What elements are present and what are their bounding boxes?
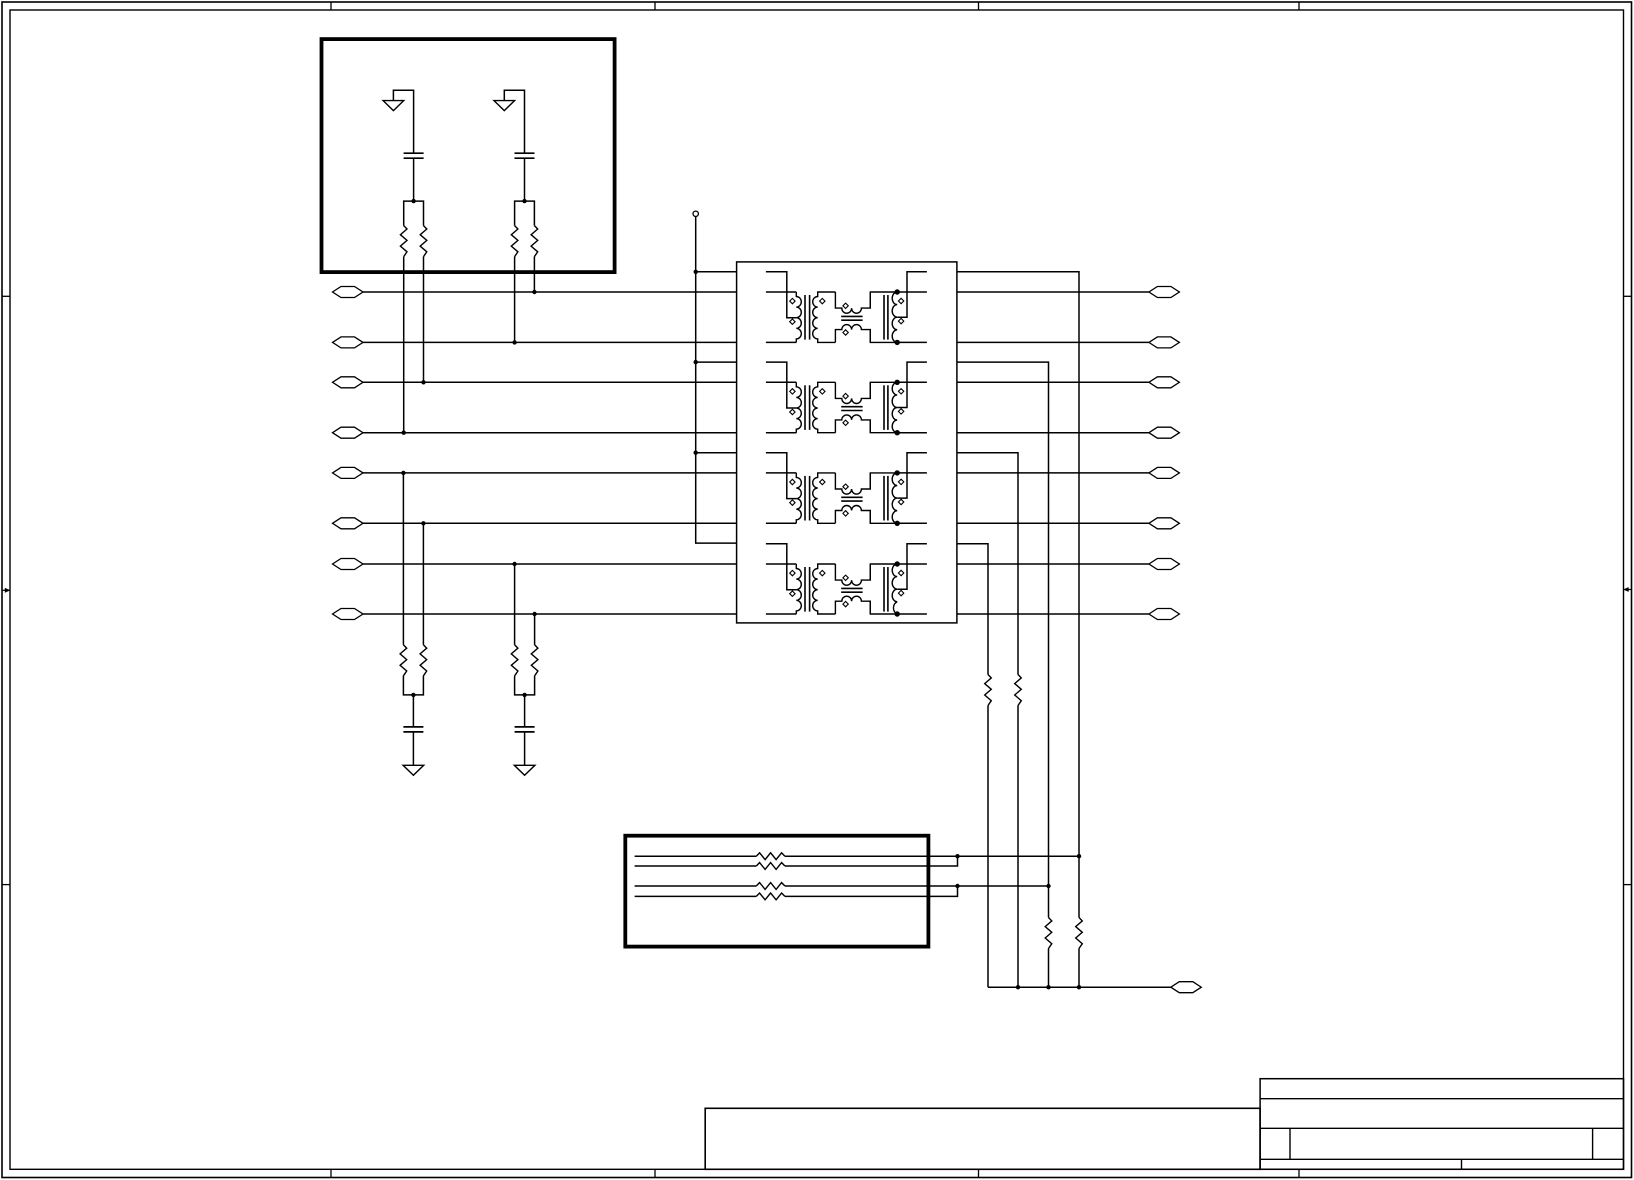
- port P5: [333, 467, 364, 478]
- wire net A1: [635, 855, 757, 857]
- port P17: [1171, 982, 1202, 993]
- polarity dot T2 line bottom: [898, 409, 903, 414]
- port P4: [333, 427, 364, 438]
- wire net MDI7: [363, 563, 737, 565]
- wire resistor R3 to bus: [514, 257, 516, 343]
- wire pin stub out+ channel 3: [897, 472, 927, 474]
- polarity dot T4 line top: [898, 570, 903, 575]
- junction: [512, 562, 516, 566]
- transformer T4 secondary winding: [813, 564, 836, 614]
- wire net A2: [635, 865, 757, 867]
- resistor R2: [420, 226, 427, 257]
- junction pin 1A: [895, 289, 900, 294]
- wire capacitor C1 to junction: [413, 158, 415, 201]
- choke L4 upper coil: [835, 564, 870, 585]
- wire resistor R2 to bus: [423, 257, 425, 383]
- wire capacitor C3 to ground: [412, 732, 414, 765]
- wire net MDI2: [363, 341, 737, 343]
- wire net MDI4: [363, 432, 737, 434]
- polarity dot L3 upper: [843, 484, 848, 489]
- polarity dot T1 primary bottom: [790, 319, 795, 324]
- port P3: [333, 377, 364, 388]
- junction pin 3A: [895, 470, 900, 475]
- wire split to resistors R3 R4: [515, 201, 535, 226]
- resistor R1: [400, 226, 407, 257]
- wire capacitor C4 to ground: [524, 732, 526, 765]
- resistor R14: [756, 863, 785, 870]
- wire pin stub out+ channel 2: [897, 381, 927, 383]
- wire bus to resistor R5: [402, 473, 404, 645]
- wire net B2 merge: [785, 886, 958, 896]
- junction: [522, 199, 526, 203]
- wire net TD6: [957, 522, 1149, 524]
- junction: [1016, 985, 1020, 989]
- transformer T4 line-side outline: [870, 564, 897, 580]
- resistor R16: [756, 893, 785, 900]
- transformer T4 primary winding: [796, 564, 801, 614]
- wire pin stub tap channel 4: [766, 544, 796, 590]
- transformer T1 core right: [883, 295, 885, 340]
- polarity dot T1 primary top: [790, 298, 795, 303]
- wire pin stub in- channel 3: [766, 522, 796, 524]
- choke L2 core: [841, 406, 862, 408]
- wire net TD2: [957, 341, 1149, 343]
- transformer T2 line winding: [892, 382, 897, 432]
- port P12: [1149, 427, 1180, 438]
- wire net MDI3: [363, 381, 737, 383]
- junction: [955, 854, 959, 858]
- resistor R13: [756, 853, 785, 860]
- polarity dot T2 primary bottom: [790, 409, 795, 414]
- capacitor C3: [403, 726, 423, 728]
- wire pin stub in+ channel 3: [766, 472, 796, 474]
- resistor R3: [511, 226, 518, 257]
- polarity dot T1 secondary: [820, 298, 825, 303]
- junction: [522, 693, 526, 697]
- wire tap to box channel 3: [696, 452, 737, 454]
- wire net TD1: [957, 291, 1149, 293]
- junction pin 2B: [895, 430, 900, 435]
- polarity dot T1 line top: [898, 298, 903, 303]
- resistor R5: [400, 645, 407, 676]
- wire tap drop channel 4: [957, 544, 988, 987]
- wire pin stub tap channel 1: [766, 272, 796, 318]
- choke L4 lower coil: [835, 596, 870, 614]
- junction: [401, 471, 405, 475]
- capacitor C2: [515, 152, 535, 154]
- wire pin stub out- channel 4: [897, 613, 927, 615]
- series resistor box (lower): [625, 836, 928, 947]
- junction pin 4A: [895, 561, 900, 566]
- junction: [694, 270, 698, 274]
- wire net A1 to tap drop: [785, 855, 1079, 857]
- polarity dot T2 line top: [898, 389, 903, 394]
- transformer T1 secondary winding: [813, 292, 836, 342]
- transformer T1 line-side outline: [870, 292, 897, 308]
- wire net B1: [635, 885, 757, 887]
- junction pin 1B: [895, 340, 900, 345]
- polarity dot T3 line top: [898, 479, 903, 484]
- resistor R15: [756, 883, 785, 890]
- port P16: [1149, 609, 1180, 620]
- port P10: [1149, 337, 1180, 348]
- wire pin stub in- channel 4: [766, 613, 796, 615]
- wire net B1 to tap drop: [785, 885, 1049, 887]
- wire split to resistors R1 R2: [404, 201, 424, 226]
- junction: [421, 521, 425, 525]
- transformer T4 line winding: [892, 564, 897, 614]
- wire pin stub out- channel 3: [897, 522, 927, 524]
- polarity dot L4 lower: [843, 601, 848, 606]
- wire net TD4: [957, 432, 1149, 434]
- polarity dot T4 secondary: [820, 570, 825, 575]
- transformer module U1 outline: [737, 262, 957, 623]
- wire resistors R5 R6 merge: [403, 676, 423, 695]
- choke L1 upper coil: [835, 292, 870, 313]
- resistor R9: [985, 675, 992, 706]
- ground GND1: [383, 101, 404, 111]
- port P2: [333, 337, 364, 348]
- transformer T3 primary winding: [796, 473, 801, 523]
- wire pin stub tap channel 3: [766, 453, 796, 499]
- polarity dot L1 upper: [843, 303, 848, 308]
- polarity dot T4 primary top: [790, 570, 795, 575]
- port P13: [1149, 467, 1180, 478]
- resistor R7: [511, 645, 518, 676]
- transformer T4 core left: [804, 567, 806, 612]
- wire centre tap channel 4: [897, 544, 927, 589]
- port P11: [1149, 377, 1180, 388]
- polarity dot T4 line bottom: [898, 590, 903, 595]
- wire bus to resistor R7: [514, 564, 516, 645]
- wire pin stub tap channel 2: [766, 362, 796, 408]
- wire net A2 merge: [785, 856, 958, 866]
- choke L1 core: [841, 315, 862, 317]
- wire pin stub in+ channel 4: [766, 563, 796, 565]
- wire net TD3: [957, 381, 1149, 383]
- resistor R4: [531, 226, 538, 257]
- capacitor C4: [515, 726, 535, 728]
- transformer T2 line-side outline: [870, 382, 897, 398]
- wire tap drop channel 2: [957, 362, 1049, 987]
- wire tap to box channel 1: [696, 271, 737, 273]
- wire pin stub out- channel 2: [897, 432, 927, 434]
- junction: [512, 340, 516, 344]
- wire resistor R1 to bus: [403, 257, 405, 433]
- wire resistor R4 to bus: [533, 257, 535, 292]
- polarity dot T3 primary top: [790, 479, 795, 484]
- polarity dot T1 line bottom: [898, 318, 903, 323]
- resistor R10: [1015, 675, 1022, 706]
- polarity dot L2 upper: [843, 393, 848, 398]
- junction pin 4B: [895, 611, 900, 616]
- wire resistors R7 R8 merge: [515, 676, 535, 695]
- polarity dot L4 upper: [843, 575, 848, 580]
- wire junction to capacitor C4: [524, 695, 526, 727]
- resistor R11: [1045, 918, 1052, 949]
- polarity dot T3 secondary: [820, 479, 825, 484]
- wire pin stub out+ channel 4: [897, 563, 927, 565]
- wire tap drop channel 3: [957, 453, 1018, 988]
- transformer T1 primary winding: [796, 292, 801, 342]
- choke L2 upper coil: [835, 382, 870, 403]
- wire pin stub in+ channel 1: [766, 291, 796, 293]
- transformer T3 line-side outline: [870, 473, 897, 489]
- polarity dot L2 lower: [843, 420, 848, 425]
- polarity dot L3 lower: [843, 511, 848, 516]
- port P9: [1149, 287, 1180, 298]
- wire tap to box channel 2: [696, 361, 737, 363]
- wire ground GND1 to capacitor C1: [393, 90, 413, 153]
- wire tap drop channel 1: [957, 272, 1079, 987]
- wire bus to resistor R8: [534, 614, 536, 645]
- choke L3 core: [841, 496, 862, 498]
- choke L1 lower coil: [835, 325, 870, 343]
- polarity dot T4 primary bottom: [790, 591, 795, 596]
- termination network box (upper): [322, 39, 615, 272]
- transformer T1 core left: [804, 295, 806, 340]
- port P7: [333, 559, 364, 570]
- port P15: [1149, 559, 1180, 570]
- ground GND2: [494, 101, 515, 111]
- wire net MDI8: [363, 613, 737, 615]
- wire pin stub out+ channel 1: [897, 291, 927, 293]
- polarity dot T3 line bottom: [898, 499, 903, 504]
- junction: [694, 451, 698, 455]
- wire pin stub in+ channel 2: [766, 381, 796, 383]
- junction: [1046, 985, 1050, 989]
- port P14: [1149, 518, 1180, 529]
- choke L4 core: [841, 587, 862, 589]
- wire net B2: [635, 895, 757, 897]
- capacitor C1: [404, 152, 424, 154]
- junction: [532, 612, 536, 616]
- wire net TD7: [957, 563, 1149, 565]
- wire net TD8: [957, 613, 1149, 615]
- wire pin stub out- channel 1: [897, 341, 927, 343]
- transformer T2 primary winding: [796, 382, 801, 432]
- wire centre-tap bus vertical: [696, 217, 737, 544]
- ground GND4: [514, 765, 535, 775]
- wire chassis bus: [988, 986, 1171, 988]
- transformer T2 core right: [883, 385, 885, 430]
- transformer T1 line winding: [892, 292, 897, 342]
- choke L3 lower coil: [835, 506, 870, 524]
- wire capacitor C2 to junction: [524, 158, 526, 201]
- transformer T4 core right: [883, 567, 885, 612]
- junction pin 2A: [895, 380, 900, 385]
- wire centre tap channel 3: [897, 453, 927, 498]
- resistor R12: [1076, 918, 1083, 949]
- junction: [694, 360, 698, 364]
- junction pin 3B: [895, 521, 900, 526]
- wire pin stub in- channel 1: [766, 341, 796, 343]
- transformer T3 secondary winding: [813, 473, 836, 523]
- wire net TD5: [957, 472, 1149, 474]
- junction: [402, 431, 406, 435]
- junction: [1077, 985, 1081, 989]
- wire centre tap channel 1: [897, 272, 927, 317]
- port P6: [333, 518, 364, 529]
- wire bus to resistor R6: [422, 523, 424, 645]
- wire net MDI1: [363, 291, 737, 293]
- transformer T3 line winding: [892, 473, 897, 523]
- wire junction to capacitor C3: [412, 695, 414, 727]
- port P8: [333, 609, 364, 620]
- transformer T3 core left: [804, 476, 806, 521]
- junction: [411, 693, 415, 697]
- polarity dot T2 primary top: [790, 389, 795, 394]
- wire ground GND2 to capacitor C2: [504, 90, 524, 153]
- resistor R6: [420, 645, 427, 676]
- junction: [532, 290, 536, 294]
- polarity dot T3 primary bottom: [790, 500, 795, 505]
- port P1: [333, 287, 364, 298]
- no-connect node: [693, 211, 698, 216]
- resistor R8: [531, 645, 538, 676]
- ground GND3: [403, 765, 424, 775]
- choke L3 upper coil: [835, 473, 870, 494]
- wire centre tap channel 2: [897, 362, 927, 407]
- polarity dot T2 secondary: [820, 389, 825, 394]
- transformer T2 secondary winding: [813, 382, 836, 432]
- junction: [1077, 854, 1081, 858]
- transformer T2 core left: [804, 385, 806, 430]
- junction: [411, 199, 415, 203]
- wire net MDI5: [363, 472, 737, 474]
- transformer T3 core right: [883, 476, 885, 521]
- junction: [1046, 884, 1050, 888]
- choke L2 lower coil: [835, 415, 870, 433]
- polarity dot L1 lower: [843, 330, 848, 335]
- junction: [421, 380, 425, 384]
- junction: [955, 884, 959, 888]
- wire pin stub in- channel 2: [766, 432, 796, 434]
- wire net MDI6: [363, 522, 737, 524]
